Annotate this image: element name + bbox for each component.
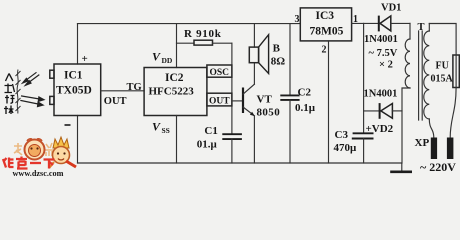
svg-text:OSC: OSC bbox=[210, 68, 230, 78]
IC1 window bump lower bbox=[50, 96, 54, 104]
OSC pin box bbox=[207, 65, 232, 78]
transformer T secondary winding bbox=[402, 23, 410, 163]
label C3 bbox=[335, 129, 349, 141]
svg-text:TG: TG bbox=[127, 82, 142, 93]
svg-text:3: 3 bbox=[295, 14, 300, 25]
label TG (IC2 pin) bbox=[127, 82, 142, 93]
svg-text:1N4001: 1N4001 bbox=[364, 34, 398, 45]
label VT bbox=[257, 94, 273, 106]
svg-text:HFC5223: HFC5223 bbox=[149, 86, 195, 98]
watermark faded slogan strokes bbox=[14, 143, 55, 156]
emitted IR arrows (upper pair) bbox=[23, 72, 40, 85]
received IR arrows (lower pair) bbox=[20, 96, 44, 107]
svg-text:VD1: VD1 bbox=[381, 3, 401, 14]
label C1 bbox=[204, 125, 217, 137]
wire C3 to ground rail bbox=[363, 139, 365, 164]
label VDD bbox=[152, 50, 173, 66]
label pin 2 bbox=[322, 44, 327, 55]
svg-text:C3: C3 bbox=[335, 129, 349, 141]
label HFC5223 bbox=[149, 86, 195, 98]
wire DC junction vertical bbox=[363, 23, 365, 133]
svg-text:FU: FU bbox=[436, 61, 449, 72]
wire IC1 negative lead bbox=[77, 116, 79, 164]
svg-text:78M05: 78M05 bbox=[310, 26, 344, 38]
label 78M05 bbox=[310, 26, 344, 38]
object surface hatched line bbox=[16, 70, 21, 114]
svg-text:~ 7.5V: ~ 7.5V bbox=[369, 48, 398, 59]
plug XP prong right bbox=[447, 138, 454, 160]
wire VSS to ground rail bbox=[176, 116, 178, 164]
svg-text:OUT: OUT bbox=[104, 96, 127, 107]
svg-text:8050: 8050 bbox=[257, 106, 281, 118]
svg-text:IC2: IC2 bbox=[165, 72, 184, 84]
label person-or-object (vertical Chinese, drawn strokes) bbox=[4, 74, 15, 115]
svg-text:× 2: × 2 bbox=[379, 59, 393, 70]
wire bottom ground rail bbox=[78, 162, 402, 164]
IC1 window bump upper bbox=[50, 70, 54, 78]
wire resistor to OSC node bbox=[213, 42, 232, 44]
svg-text:SS: SS bbox=[162, 126, 170, 135]
svg-text:XP: XP bbox=[415, 137, 430, 149]
label 470u bbox=[334, 142, 358, 154]
svg-text:C1: C1 bbox=[204, 125, 217, 137]
label IC3 bbox=[316, 10, 335, 22]
svg-text:015A: 015A bbox=[431, 74, 454, 85]
svg-text:VT: VT bbox=[257, 94, 273, 106]
wire primary bottom to plug prong bbox=[429, 119, 434, 138]
svg-text:DD: DD bbox=[162, 56, 173, 65]
label IC2 bbox=[165, 72, 184, 84]
label R 910k bbox=[184, 28, 222, 40]
label 8 ohm bbox=[271, 56, 286, 68]
label 1N4001 upper bbox=[364, 34, 398, 45]
wire IC1 OUT to IC2 TG bbox=[101, 90, 144, 92]
label 8050 bbox=[257, 106, 281, 118]
capacitor C2 plates bbox=[280, 95, 299, 100]
wire speaker to top rail bbox=[253, 24, 255, 47]
wire resistor branch left bbox=[177, 42, 195, 44]
svg-text:IC3: IC3 bbox=[316, 10, 335, 22]
plug XP prong left bbox=[431, 138, 437, 160]
svg-text:1N4001: 1N4001 bbox=[364, 89, 398, 100]
wire primary top to fuse bbox=[429, 24, 456, 56]
transformer core bbox=[419, 31, 423, 120]
speaker B bbox=[249, 35, 268, 74]
label 01.micro bbox=[197, 139, 218, 151]
wire fuse to plug prong bbox=[450, 88, 456, 138]
fuse FU 015A bbox=[453, 55, 459, 88]
label 1N4001 lower bbox=[364, 89, 398, 100]
label pin 1 bbox=[353, 14, 358, 25]
diode VD1 bbox=[379, 16, 391, 32]
transistor VT 8050 bbox=[243, 84, 255, 116]
watermark mascot round head bbox=[25, 139, 45, 160]
svg-text:B: B bbox=[273, 43, 281, 55]
label 0.1u bbox=[295, 102, 316, 114]
svg-text:+VD2: +VD2 bbox=[366, 123, 394, 135]
label IC1 bbox=[64, 70, 83, 82]
capacitor C1 plates bbox=[222, 134, 242, 139]
svg-text:R 910k: R 910k bbox=[184, 28, 222, 40]
wire top supply rail bbox=[78, 23, 301, 25]
svg-text:V: V bbox=[152, 120, 161, 134]
wire pin2 to ground rail bbox=[328, 41, 330, 163]
label FU bbox=[436, 61, 449, 72]
svg-text:C2: C2 bbox=[298, 86, 312, 98]
wire C2 to ground rail bbox=[289, 100, 291, 163]
svg-text:470μ: 470μ bbox=[334, 142, 358, 154]
wire IC1 positive lead bbox=[77, 24, 79, 64]
label +VD2 bbox=[366, 123, 394, 135]
label C2 bbox=[298, 86, 312, 98]
regulator IC3 78M05 body bbox=[300, 8, 351, 41]
wire collector to speaker bbox=[253, 63, 255, 84]
svg-text:T: T bbox=[418, 22, 425, 33]
label ~7.5V bbox=[369, 48, 398, 59]
label VSS bbox=[152, 120, 170, 136]
wire C2 drop from rail bbox=[289, 24, 291, 96]
label TX05D bbox=[56, 85, 92, 97]
label 015A bbox=[431, 74, 454, 85]
label - polarity IC1 bbox=[65, 124, 71, 126]
diode VD2 bbox=[380, 103, 393, 119]
svg-text:IC1: IC1 bbox=[64, 70, 83, 82]
wire VD1 to transformer secondary top bbox=[391, 22, 410, 24]
IC2 HFC5223 body bbox=[144, 68, 207, 116]
wire VDD drop from rail bbox=[176, 24, 178, 68]
wire OSC / C1 vertical bbox=[231, 43, 233, 134]
capacitor C3 plates bbox=[352, 133, 374, 138]
label x2 bbox=[379, 59, 393, 70]
svg-text:+: + bbox=[82, 53, 88, 65]
watermark red brand glyph strokes bbox=[3, 157, 55, 169]
label T bbox=[418, 22, 425, 33]
wire C1 to ground rail bbox=[231, 139, 233, 163]
svg-text:8Ω: 8Ω bbox=[271, 56, 286, 68]
label ~220V bbox=[420, 160, 456, 174]
label XP bbox=[415, 137, 430, 149]
wire VD2 branch bbox=[364, 110, 380, 112]
sensor IC1 TX05D body bbox=[54, 64, 101, 116]
wire pin1 to VD1 bbox=[352, 22, 379, 24]
label + polarity IC1 bbox=[82, 53, 88, 65]
svg-text:01.μ: 01.μ bbox=[197, 139, 218, 151]
svg-text:~ 220V: ~ 220V bbox=[420, 160, 456, 174]
label pin 3 bbox=[295, 14, 300, 25]
svg-text:2: 2 bbox=[322, 44, 327, 55]
wire VD2 anode to secondary bottom line bbox=[392, 110, 402, 112]
OUT pin box bbox=[207, 93, 232, 106]
svg-text:0.1μ: 0.1μ bbox=[295, 102, 316, 114]
svg-text:www.dzsc.com: www.dzsc.com bbox=[13, 169, 64, 177]
label B bbox=[273, 43, 281, 55]
resistor R 910k body bbox=[194, 40, 213, 45]
watermark url bbox=[13, 169, 64, 178]
wire emitter to ground rail bbox=[253, 116, 255, 163]
svg-text:V: V bbox=[152, 50, 161, 64]
wire IC2 OUT to base bbox=[232, 100, 243, 102]
transformer primary winding bbox=[424, 24, 430, 119]
ground symbol bbox=[390, 163, 412, 172]
label OUT (IC1 pin) bbox=[104, 96, 127, 107]
svg-text:TX05D: TX05D bbox=[56, 85, 92, 97]
label VD1 bbox=[381, 3, 401, 14]
svg-text:OUT: OUT bbox=[209, 96, 230, 106]
watermark crowned mascot bbox=[49, 137, 76, 168]
